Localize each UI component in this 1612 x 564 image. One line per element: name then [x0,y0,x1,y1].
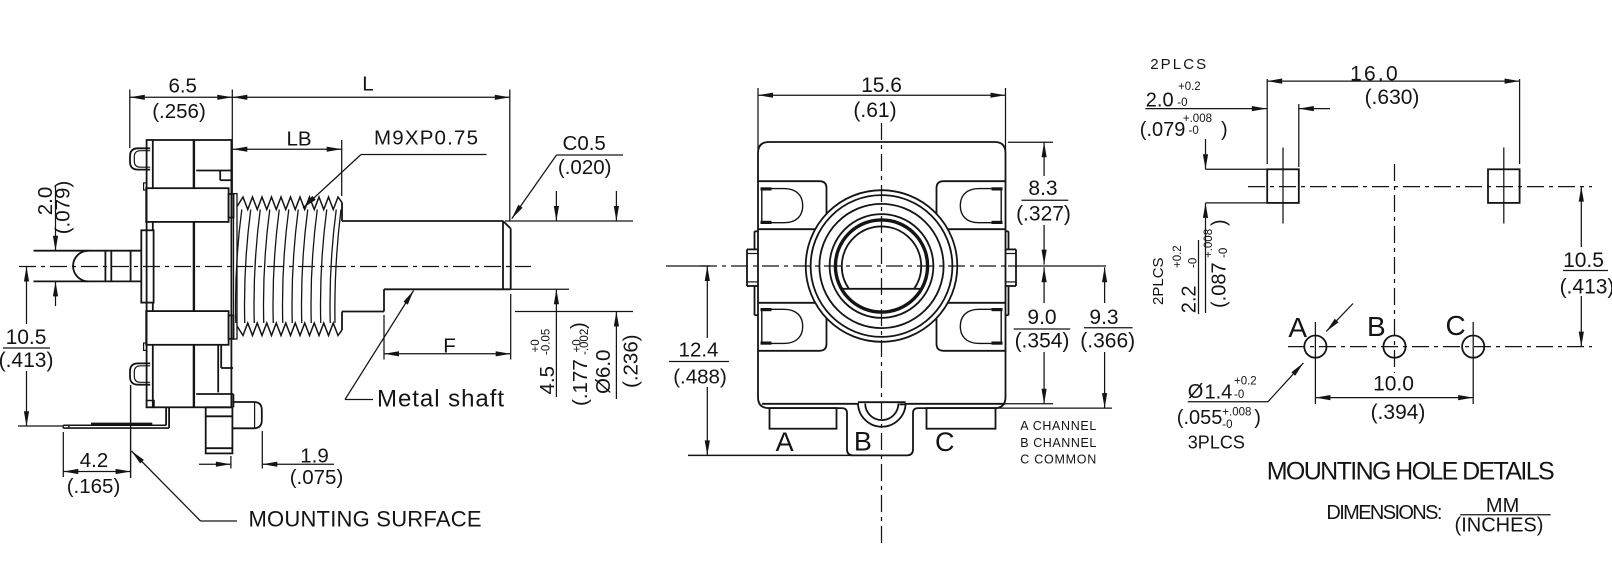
svg-text:): ) [567,322,590,329]
svg-text:MOUNTING SURFACE: MOUNTING SURFACE [249,507,482,532]
svg-text:+0.2: +0.2 [1172,245,1184,268]
svg-text:DIMENSIONS:: DIMENSIONS: [1326,502,1442,524]
bushing circle outer [806,190,958,342]
front body outline [758,142,1006,408]
svg-text:(.075): (.075) [290,466,344,489]
svg-text:(.413): (.413) [1560,276,1612,299]
shaft top extension line [505,220,633,222]
clip spring tab [762,189,803,223]
upper clip band [146,188,228,222]
svg-text:-0: -0 [1189,125,1199,137]
svg-text:-0: -0 [1188,258,1200,268]
svg-text:2PLCS: 2PLCS [1150,257,1167,305]
svg-text:(.366): (.366) [1080,329,1135,352]
side band [754,231,756,249]
svg-text:+.008: +.008 [1222,407,1251,419]
shaft flat extension line [511,288,569,290]
dimension 10.5 (.413) right view [1579,187,1584,202]
svg-text:L: L [362,72,373,95]
svg-text:(.327): (.327) [1016,203,1071,226]
svg-text:(.236): (.236) [620,334,643,388]
mounting clip pocket outline [758,181,827,214]
shaft flat chord [841,288,921,290]
left square crosshair [1282,148,1284,224]
units fraction line [1460,514,1550,516]
dimension 15.6 (.61) body width [757,88,759,150]
mounting clip pocket outline [758,318,827,351]
metal shaft outline [342,220,503,222]
svg-text:10.5: 10.5 [6,326,47,349]
svg-text:-0: -0 [1234,389,1244,401]
svg-text:+.008: +.008 [1183,113,1212,125]
svg-text:-.002: -.002 [579,329,591,355]
svg-text:10.5: 10.5 [1563,249,1604,272]
svg-text:-0: -0 [1222,419,1232,431]
svg-text:+.008: +.008 [1203,229,1215,258]
svg-text:B: B [1367,311,1386,342]
top-left tab [130,148,150,169]
extension line 9.3 [996,407,1112,409]
left edge bump upper [144,183,147,190]
svg-text:2.2: 2.2 [1179,285,1201,313]
svg-text:): ) [1254,407,1261,429]
bushing collar plate [141,230,153,302]
bottom-left tab [130,363,150,384]
svg-text:A: A [1288,312,1307,343]
dimension LB thread length [232,148,341,150]
svg-text:-0.05: -0.05 [541,329,553,355]
body bottom-right step [196,393,233,395]
svg-text:(.055: (.055 [1177,407,1223,429]
dimension 2.0 (.079) pin diameter [55,186,57,251]
support pin [34,250,142,252]
encoder body outline (side view) [147,140,232,407]
holes row centerline [1288,346,1592,348]
svg-text:9.0: 9.0 [1027,306,1056,329]
clip contact tick [992,342,1003,345]
clip spring tab [960,309,1001,343]
extension line body top right [1008,141,1053,143]
mounting clip pocket outline [937,181,1006,214]
hole B [1383,336,1405,358]
bump top line [858,401,906,403]
centerline horizontal mounting holes [1248,186,1592,188]
svg-text:8.3: 8.3 [1028,177,1057,200]
thread profile top [237,197,342,210]
svg-text:6.5: 6.5 [168,74,197,97]
terminal block A [770,408,837,429]
svg-text:C: C [1445,310,1465,341]
svg-text:A CHANNEL: A CHANNEL [1020,419,1096,433]
label Metal shaft with leader [345,291,414,400]
clip contact tick [761,342,772,345]
bottom center bump inner arc [865,404,898,421]
dimension 12.4 (.488) [705,266,710,281]
mounting surface extension line [18,425,63,427]
dimension 4.5 flat height with tolerance [555,191,557,221]
svg-text:Metal shaft: Metal shaft [377,386,504,413]
body seam line above bottom [762,403,858,405]
svg-text:(.020): (.020) [558,156,612,179]
thread helix lines [236,210,242,324]
svg-text:): ) [1221,119,1228,141]
body inner vertical line 1 [193,140,195,188]
svg-text:(.630): (.630) [1365,86,1420,109]
clip spring tab [960,189,1001,223]
side tab [1015,249,1017,286]
clip spring tab [762,309,803,343]
svg-text:B: B [854,427,872,457]
body bottom-left plate box [147,401,154,408]
svg-text:C0.5: C0.5 [563,132,606,155]
lower clip band right piece [229,315,234,338]
svg-text:16.0: 16.0 [1350,63,1400,86]
svg-text:(.177: (.177 [569,359,592,406]
svg-text:-0: -0 [1218,248,1230,258]
svg-text:(.165): (.165) [67,475,121,498]
dimension 2.2 with tolerance [1205,139,1207,169]
svg-text:(.61): (.61) [853,99,896,122]
svg-text:10.0: 10.0 [1373,372,1414,395]
extension line 9.0 [1005,403,1053,405]
svg-text:A: A [776,427,794,457]
svg-text:+0.2: +0.2 [1234,375,1257,387]
terminal block C [927,408,996,429]
centerline horizontal middle view [700,265,1008,267]
center support tab [842,408,918,455]
shaft circle inner [837,221,927,311]
svg-text:Ø6.0: Ø6.0 [592,350,615,394]
shaft circle thick [835,220,928,313]
centerline left view [19,266,531,268]
svg-text:(.354): (.354) [1015,329,1070,352]
svg-text:(.394): (.394) [1371,401,1426,424]
body lower-right step lines [217,345,219,393]
svg-text:C: C [935,427,955,457]
thread profile bottom [237,323,342,336]
side band [1008,231,1010,249]
front plate edge line [152,140,154,188]
dimension 4.2 (.165) [62,432,64,477]
mounting foot [91,423,152,425]
bushing circle 3 [819,204,943,328]
svg-text:C COMMON: C COMMON [1020,452,1096,466]
dimension 10.0 (.394) [1315,397,1473,399]
svg-text:(INCHES): (INCHES) [1455,515,1544,537]
right square crosshair [1503,148,1505,224]
bushing circle 4 [830,214,934,318]
centerline vertical mounting holes [1394,164,1396,373]
clip contact tick [992,187,1003,190]
svg-text:+0.2: +0.2 [1178,81,1201,93]
svg-text:(.413): (.413) [0,349,53,372]
svg-text:(.087: (.087 [1209,262,1231,308]
left edge bump lower [144,343,147,350]
svg-text:15.6: 15.6 [861,74,902,97]
svg-text:12.4: 12.4 [679,339,719,362]
mounting surface line middle view [688,454,853,456]
shaft bottom extension line [515,311,633,313]
body inner vertical line 3 [193,345,195,408]
centerline vertical middle view [881,123,883,545]
dimension diameter 6.0 with tolerance [615,191,617,221]
lower clip band [146,311,228,345]
center terminal left view [206,407,233,453]
mounting leg [165,408,167,426]
bottom center bump outer arc [858,403,906,427]
svg-text:1.9: 1.9 [300,445,329,468]
dimension 10.5 (.413) height [26,267,28,325]
extension line 4.2 right [130,385,132,478]
label MOUNTING SURFACE with leader [132,451,201,521]
shaft D-cut circle [842,226,921,288]
pin groove lines [104,251,106,282]
dimension 9.3 (.366) [1102,267,1107,282]
svg-text:M9XP0.75: M9XP0.75 [374,127,478,150]
right bent leg left view [232,402,261,428]
svg-text:Ø: Ø [1188,381,1204,403]
bushing circle 2 [811,195,953,337]
hole C [1462,336,1484,358]
svg-text:): ) [1209,219,1231,226]
dimension 6.5 (.256) [129,90,131,149]
hole A [1304,336,1326,358]
svg-text:(.079): (.079) [52,181,75,235]
square mounting hole right [1488,169,1520,203]
svg-text:F: F [443,335,456,358]
clip contact tick [761,187,772,190]
dimension 1.9 (.075) [230,456,232,469]
side tab [746,249,748,286]
svg-text:9.3: 9.3 [1089,306,1118,329]
mounting clip pocket outline [937,318,1006,351]
square mounting hole left [1267,169,1299,203]
dimension L shaft length [232,96,510,98]
dimension 8.3 (.327) [1043,142,1045,176]
svg-text:(.256): (.256) [152,100,206,123]
svg-text:1.4: 1.4 [1205,382,1233,404]
svg-text:MOUNTING HOLE DETAILS: MOUNTING HOLE DETAILS [1267,457,1555,485]
svg-text:3PLCS: 3PLCS [1188,432,1245,452]
svg-text:B CHANNEL: B CHANNEL [1020,436,1096,450]
dimension F flat length [383,315,385,360]
body inner vertical line 2 [193,222,195,311]
svg-text:-0: -0 [1177,97,1187,109]
svg-text:LB: LB [286,128,311,151]
dimension 16.0 (.630) [1266,79,1268,164]
svg-text:(.488): (.488) [673,366,727,389]
svg-text:(.079: (.079 [1140,119,1186,141]
dimension 9.0 (.354) [1042,267,1047,282]
svg-text:4.2: 4.2 [80,449,109,472]
hole diameter leader [1268,363,1303,402]
svg-text:4.5: 4.5 [536,366,559,395]
body upper-right step lines [196,170,231,172]
thread runout lines [335,210,341,324]
upper clip band right piece [229,194,234,218]
thread collar [234,194,238,339]
